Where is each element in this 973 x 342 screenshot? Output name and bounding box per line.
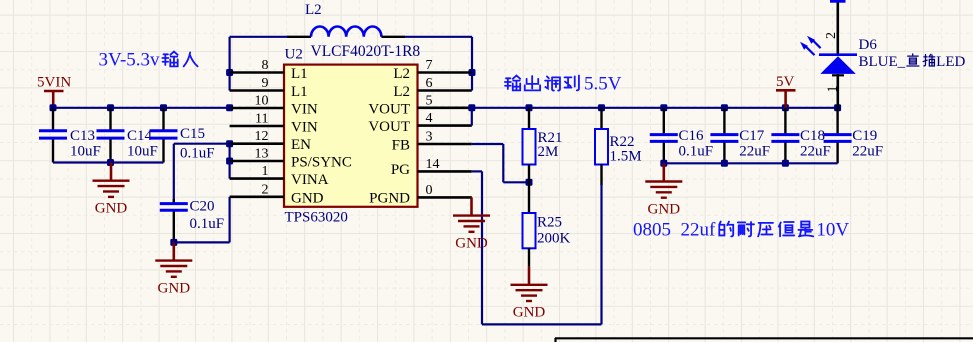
svg-text:C20: C20 xyxy=(190,199,215,215)
junction VOUT pins xyxy=(468,104,475,111)
svg-text:14: 14 xyxy=(426,157,440,172)
junction pin8 xyxy=(226,69,233,76)
svg-text:L2: L2 xyxy=(393,84,410,100)
pin 1 (VINA) left xyxy=(230,177,284,180)
svg-text:12: 12 xyxy=(255,129,269,144)
LED emission arrows xyxy=(800,36,821,55)
ground input caps xyxy=(93,163,130,217)
svg-text:10uF: 10uF xyxy=(70,144,101,160)
junction gnd bus C14 xyxy=(107,159,114,166)
capacitor C17 xyxy=(710,108,738,164)
power port 5VIN xyxy=(37,75,71,108)
resistor R22 bottom pin xyxy=(600,165,602,186)
junction C19/LED xyxy=(834,104,841,111)
svg-text:C18: C18 xyxy=(800,128,825,144)
junction C16 top xyxy=(660,104,667,111)
svg-text:0: 0 xyxy=(426,183,433,198)
svg-text:U2: U2 xyxy=(285,47,303,63)
svg-text:3: 3 xyxy=(426,130,433,145)
wire FB to divider xyxy=(503,181,529,183)
svg-text:22uF: 22uF xyxy=(852,144,883,160)
junction 5VIN/C13 xyxy=(50,104,57,111)
wire PG bottom xyxy=(482,323,602,325)
svg-text:1.5M: 1.5M xyxy=(610,149,642,165)
pin 6 (L2) right xyxy=(418,89,472,92)
svg-text:GND: GND xyxy=(513,305,546,321)
svg-text:4: 4 xyxy=(426,111,433,126)
svg-text:GND: GND xyxy=(158,280,191,296)
capacitor C18 xyxy=(771,108,799,164)
junction EN pin12 xyxy=(226,140,233,147)
capacitor C20 xyxy=(160,199,188,242)
svg-text:5: 5 xyxy=(426,93,433,108)
pin 0 (PGND) right xyxy=(418,196,472,199)
capacitor C19 xyxy=(824,108,852,164)
wire C20 gnd horizontal xyxy=(174,241,230,243)
resistor R21 top pin xyxy=(528,108,530,129)
wire EN net horizontal xyxy=(174,143,230,145)
junction VIN pins xyxy=(226,104,233,111)
wire PG right vertical xyxy=(600,184,602,324)
resistor R25 body xyxy=(523,213,536,248)
resistor R22 top pin xyxy=(600,108,602,129)
svg-text:D6: D6 xyxy=(859,37,878,53)
junction C20/GND xyxy=(170,239,177,246)
wire L2 top right xyxy=(405,36,472,38)
svg-text:TPS63020: TPS63020 xyxy=(285,210,348,226)
svg-text:C15: C15 xyxy=(180,126,205,142)
inductor L2 xyxy=(287,26,405,36)
svg-text:8: 8 xyxy=(262,58,269,73)
svg-text:11: 11 xyxy=(255,112,268,127)
svg-text:7: 7 xyxy=(426,58,433,73)
note hanzi de-nai-ya-zhi-shi (rating) xyxy=(719,222,813,237)
junction R22 top xyxy=(598,104,605,111)
junction out bus C18 xyxy=(782,160,789,167)
junction PS/SYNC pin13 xyxy=(226,158,233,165)
svg-text:2M: 2M xyxy=(538,144,559,160)
resistor R21 body xyxy=(523,129,536,165)
D6 hanzi zhi-cha (thru-hole) xyxy=(907,54,935,66)
pin 4 (VOUT) right xyxy=(418,124,472,127)
svg-text:5.5V: 5.5V xyxy=(584,74,622,95)
svg-text:10: 10 xyxy=(255,94,269,109)
resistor R22 body xyxy=(595,129,608,165)
svg-text:GND: GND xyxy=(95,201,128,217)
svg-text:VOUT: VOUT xyxy=(368,101,410,117)
capacitor C13 xyxy=(39,108,67,163)
capacitor C16 xyxy=(650,108,678,164)
svg-text:1: 1 xyxy=(826,86,841,93)
wire output cap gnd bus xyxy=(664,162,838,164)
LED D6 symbol xyxy=(819,55,857,76)
svg-text:L2: L2 xyxy=(393,66,410,82)
svg-text:C14: C14 xyxy=(127,128,153,144)
sheet border xyxy=(555,338,973,342)
pin 11 (VIN) left xyxy=(230,125,284,128)
svg-text:13: 13 xyxy=(255,147,269,162)
svg-text:C17: C17 xyxy=(739,128,765,144)
svg-text:PGND: PGND xyxy=(369,190,410,206)
svg-text:2: 2 xyxy=(262,182,269,197)
svg-text:L1: L1 xyxy=(291,66,308,82)
pin 7 (L2) right xyxy=(418,71,472,74)
svg-text:0.1uF: 0.1uF xyxy=(180,146,215,162)
pin 5 (VOUT) right xyxy=(418,107,472,110)
wire L2 top left xyxy=(230,36,287,38)
junction out bus C16/GND xyxy=(660,160,667,167)
ground PGND xyxy=(453,197,490,251)
node above LED xyxy=(830,0,846,3)
svg-text:5V: 5V xyxy=(776,74,795,90)
wire input cap gnd bus xyxy=(53,161,164,163)
svg-text:C19: C19 xyxy=(852,128,877,144)
svg-text:R25: R25 xyxy=(537,215,562,231)
svg-text:1: 1 xyxy=(262,164,269,179)
svg-text:EN: EN xyxy=(291,137,311,153)
junction pin7 xyxy=(469,69,476,76)
junction FB divider xyxy=(526,179,533,186)
pin 8 (L1) left xyxy=(230,71,284,74)
pin 2 (GND) left xyxy=(230,196,284,199)
svg-text:22uF: 22uF xyxy=(800,144,831,160)
svg-text:6: 6 xyxy=(426,76,433,91)
svg-text:L2: L2 xyxy=(305,2,322,18)
pin 9 (L1) left xyxy=(230,89,284,92)
junction out bus C17 xyxy=(721,160,728,167)
svg-text:VLCF4020T-1R8: VLCF4020T-1R8 xyxy=(311,43,421,60)
ground output caps xyxy=(645,163,682,217)
svg-text:L1: L1 xyxy=(291,84,308,100)
junction C14 xyxy=(107,104,114,111)
svg-text:C13: C13 xyxy=(70,128,95,144)
svg-text:PG: PG xyxy=(391,162,410,178)
wire PG left vertical xyxy=(481,171,483,324)
svg-text:C16: C16 xyxy=(679,128,705,144)
resistor R25 top pin xyxy=(528,182,530,213)
wire PG from pin14 xyxy=(472,170,482,172)
resistor R25 bottom pin xyxy=(528,248,530,266)
junction C17 top xyxy=(721,104,728,111)
wire L2 left vertical xyxy=(229,37,231,91)
svg-text:200K: 200K xyxy=(537,231,571,247)
note hanzi shu-chu-diao-dao (output adj) xyxy=(505,76,579,91)
svg-text:VOUT: VOUT xyxy=(368,119,410,135)
svg-text:VINA: VINA xyxy=(291,172,329,188)
op-amp U2 body TPS63020 xyxy=(284,65,418,207)
wire LED anode down xyxy=(836,74,839,108)
wire FB vertical xyxy=(502,144,504,182)
wire VOUT rail xyxy=(472,107,838,109)
pin 12 (EN) left xyxy=(230,142,284,145)
capacitor C14 xyxy=(97,108,125,163)
wire L2 right vertical xyxy=(471,37,473,91)
capacitor C15 xyxy=(150,108,178,163)
junction C18/5V xyxy=(782,104,789,111)
svg-text:VIN: VIN xyxy=(291,120,318,136)
wire EN net vertical xyxy=(229,144,231,179)
pin 10 (VIN) left xyxy=(230,107,284,110)
svg-text:0.1uF: 0.1uF xyxy=(679,144,714,160)
svg-text:GND: GND xyxy=(648,201,681,217)
resistor R21 bottom pin xyxy=(528,165,530,183)
junction C15 xyxy=(160,104,167,111)
svg-text:5VIN: 5VIN xyxy=(37,75,71,91)
note hanzi shu-ru (input) xyxy=(162,52,197,67)
junction R21 top xyxy=(526,104,533,111)
svg-text:GND: GND xyxy=(291,190,324,206)
svg-text:22uF: 22uF xyxy=(739,144,770,160)
svg-text:0.1uF: 0.1uF xyxy=(190,216,225,232)
wire C20 top xyxy=(173,144,175,203)
pin 3 (FB) right xyxy=(418,143,472,146)
wire IC gnd vertical xyxy=(229,197,231,243)
svg-text:FB: FB xyxy=(392,138,410,154)
svg-text:GND: GND xyxy=(455,235,488,251)
wire FB from pin3 xyxy=(472,143,504,145)
svg-text:10uF: 10uF xyxy=(127,144,158,160)
wire LED cathode up xyxy=(836,0,839,54)
ground C20 xyxy=(155,242,192,296)
ground R25 xyxy=(511,267,548,321)
svg-text:2: 2 xyxy=(824,32,839,39)
power port 5V xyxy=(776,74,796,108)
wire VIN rail xyxy=(53,107,231,109)
svg-text:9: 9 xyxy=(262,76,269,91)
svg-text:3V-5.3v: 3V-5.3v xyxy=(99,50,161,71)
wire pin4 link xyxy=(471,108,473,126)
pin 14 (PG) right xyxy=(418,170,472,173)
pin 13 (PS/SYNC) left xyxy=(230,160,284,163)
svg-text:VIN: VIN xyxy=(291,102,318,118)
svg-text:PS/SYNC: PS/SYNC xyxy=(291,155,352,171)
